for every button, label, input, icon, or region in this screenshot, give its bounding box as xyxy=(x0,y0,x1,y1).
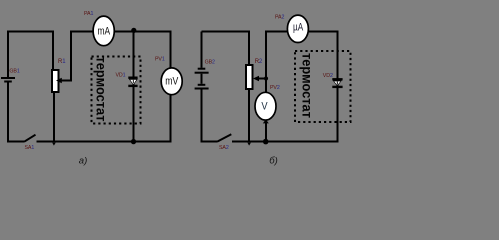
svg-text:PA2: PA2 xyxy=(275,15,284,21)
svg-text:R2: R2 xyxy=(255,59,263,65)
svg-text:GB2: GB2 xyxy=(205,59,215,65)
svg-text:PV2: PV2 xyxy=(270,85,280,91)
svg-text:µA: µA xyxy=(293,21,304,33)
svg-text:VD1: VD1 xyxy=(116,73,126,79)
svg-text:термостат: термостат xyxy=(300,53,315,118)
svg-text:V: V xyxy=(261,101,268,113)
svg-text:R1: R1 xyxy=(58,59,66,65)
svg-text:SA2: SA2 xyxy=(219,145,229,151)
svg-text:SA1: SA1 xyxy=(25,145,35,151)
svg-text:PV1: PV1 xyxy=(155,56,165,62)
svg-text:термостат: термостат xyxy=(94,57,109,122)
svg-text:б): б) xyxy=(269,156,278,167)
svg-text:GB1: GB1 xyxy=(9,69,19,75)
svg-text:а): а) xyxy=(79,155,87,166)
svg-text:VD2: VD2 xyxy=(323,73,333,79)
svg-text:mA: mA xyxy=(98,25,111,37)
svg-text:PA1: PA1 xyxy=(84,11,93,17)
svg-text:mV: mV xyxy=(165,75,179,87)
